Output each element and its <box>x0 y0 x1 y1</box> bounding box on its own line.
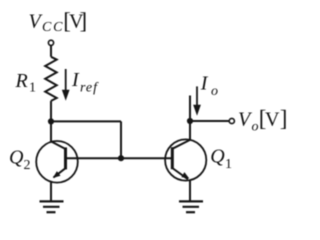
svg-text:V: V <box>265 109 280 131</box>
svg-text:1: 1 <box>225 157 232 172</box>
svg-text:]: ] <box>80 8 88 33</box>
svg-text:I: I <box>71 69 80 91</box>
svg-text:]: ] <box>280 106 288 131</box>
svg-text:CC: CC <box>42 20 63 35</box>
svg-text:1: 1 <box>29 81 36 96</box>
svg-text:R: R <box>15 70 28 92</box>
svg-text:Q: Q <box>210 146 225 168</box>
svg-text:Q: Q <box>9 147 24 169</box>
svg-text:o: o <box>211 84 218 99</box>
svg-text:ref: ref <box>80 81 99 96</box>
svg-text:2: 2 <box>24 158 31 173</box>
svg-text:o: o <box>252 120 259 135</box>
svg-text:I: I <box>200 73 209 95</box>
